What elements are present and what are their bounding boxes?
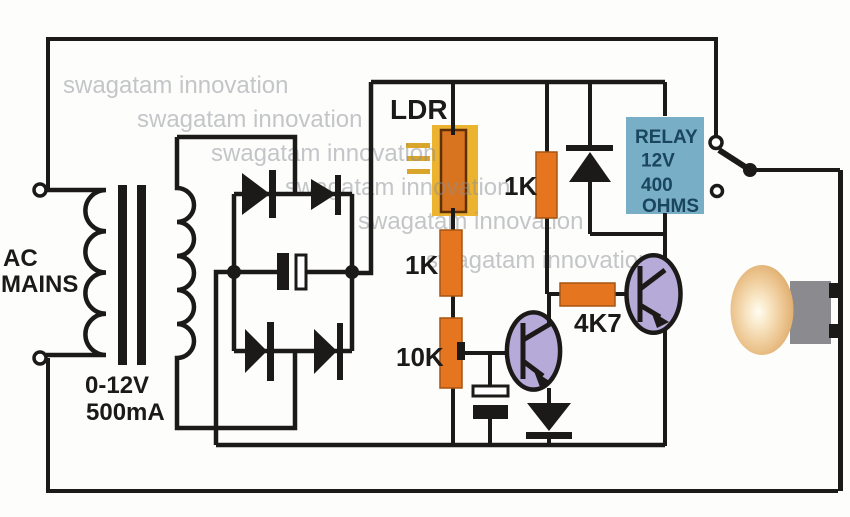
wire: relay bottom to Q2 collector and flyback anode: [590, 213, 665, 270]
wire: 1K pullup column: [545, 82, 549, 294]
wire: cap bottom to rail: [488, 419, 492, 446]
svg-text:1K: 1K: [405, 250, 438, 280]
wire: Q1 emitter down to D6: [547, 388, 551, 404]
diode D1 (bridge top-left): [242, 170, 276, 218]
svg-text:swagatam innovation: swagatam innovation: [137, 106, 362, 133]
svg-text:10K: 10K: [396, 342, 444, 372]
wire: positive stub bridge to supply rail: [352, 82, 371, 273]
diode D4 (bridge bottom-right): [314, 323, 343, 380]
node: AC terminal top: [34, 184, 46, 196]
svg-text:swagatam innovation: swagatam innovation: [63, 72, 288, 99]
svg-text:swagatam innovation: swagatam innovation: [211, 140, 436, 167]
svg-text:1K: 1K: [504, 171, 537, 201]
wire: secondary top to bridge: [177, 137, 295, 194]
wire: electronics bottom rail: [216, 443, 665, 448]
wire: mains top run (left terminal up, across top, down to switch pole): [48, 39, 716, 190]
node: armature pivot: [743, 163, 757, 177]
diode D2 (bridge top-right): [311, 175, 341, 215]
lamp holder base: [790, 281, 831, 344]
svg-text:0-12V: 0-12V: [85, 372, 149, 399]
svg-text:RELAY: RELAY: [635, 127, 698, 148]
relay text: [635, 127, 699, 217]
svg-text:500mA: 500mA: [86, 399, 165, 426]
resistor R2 10K preset: [440, 318, 462, 388]
wire: electronics top supply rail: [371, 80, 665, 85]
lamp bulb: [731, 265, 794, 355]
svg-text:12V: 12V: [641, 151, 675, 172]
diode D5 (flyback across relay): [566, 145, 613, 182]
wire: 4K7 row: [547, 292, 639, 296]
relay contact terminal top: [710, 137, 722, 149]
LDR photocell body (yellow holder + orange element): [432, 125, 478, 216]
wire: Q2 emitter to bottom rail: [663, 330, 667, 446]
relay contact terminal bottom: [712, 186, 723, 197]
svg-text:400: 400: [641, 175, 673, 196]
capacitor C2 (base filter): [473, 386, 508, 419]
wire: cap branch from base line: [488, 353, 492, 387]
lamp terminal upper: [829, 283, 843, 298]
node: bridge positive junction: [345, 265, 359, 279]
resistor R3 1K (pullup): [536, 152, 557, 218]
wire: lamp return (right vertical): [838, 170, 843, 491]
wire: Q1 collector up / 1K down to 4K7 node: [547, 294, 551, 325]
wire: bridge top row: [234, 192, 352, 197]
resistor R1 1K (below LDR): [440, 230, 462, 296]
relay RL1 coil box: [626, 117, 704, 214]
transformer T1 secondary winding: [177, 137, 295, 428]
wire: Q1 base from 10K wiper: [462, 351, 522, 355]
diode D6 (emitter diode): [526, 403, 572, 446]
capacitor C1 (filter, polarized): [277, 253, 306, 290]
svg-text:MAINS: MAINS: [1, 271, 78, 298]
wire: flyback diode column: [588, 82, 592, 234]
wire: bridge right branch: [350, 194, 355, 351]
wire: switch to lamp loop: [750, 168, 840, 172]
wire: LDR column: [451, 82, 455, 446]
wire: negative rail from bridge to bottom rail: [216, 272, 234, 445]
lamp terminal lower: [829, 324, 843, 338]
10K wiper tick: [457, 342, 465, 360]
transistor Q2: [627, 255, 681, 333]
transistor Q1: [507, 312, 560, 389]
node: bridge negative junction: [227, 265, 241, 279]
wire: mains bottom run (left terminal down and across bottom): [48, 358, 838, 491]
transformer T1 core: [118, 185, 146, 365]
wire: bridge left branch: [232, 194, 237, 351]
switch armature: [719, 150, 750, 170]
diode D3 (bridge bottom-left): [245, 322, 274, 381]
wire: bridge bottom row: [234, 349, 352, 354]
wire: relay top feed: [663, 82, 667, 116]
resistor R4 4K7: [560, 283, 615, 306]
wire: bridge mid row (cap row): [234, 270, 352, 275]
LDR light rays (gold dashes): [406, 143, 430, 174]
svg-text:LDR: LDR: [390, 94, 448, 125]
svg-text:4K7: 4K7: [574, 308, 622, 338]
svg-text:OHMS: OHMS: [642, 196, 699, 217]
transformer T1 primary winding: [46, 190, 106, 355]
node: AC terminal bottom: [34, 352, 46, 364]
svg-text:AC: AC: [3, 245, 38, 272]
